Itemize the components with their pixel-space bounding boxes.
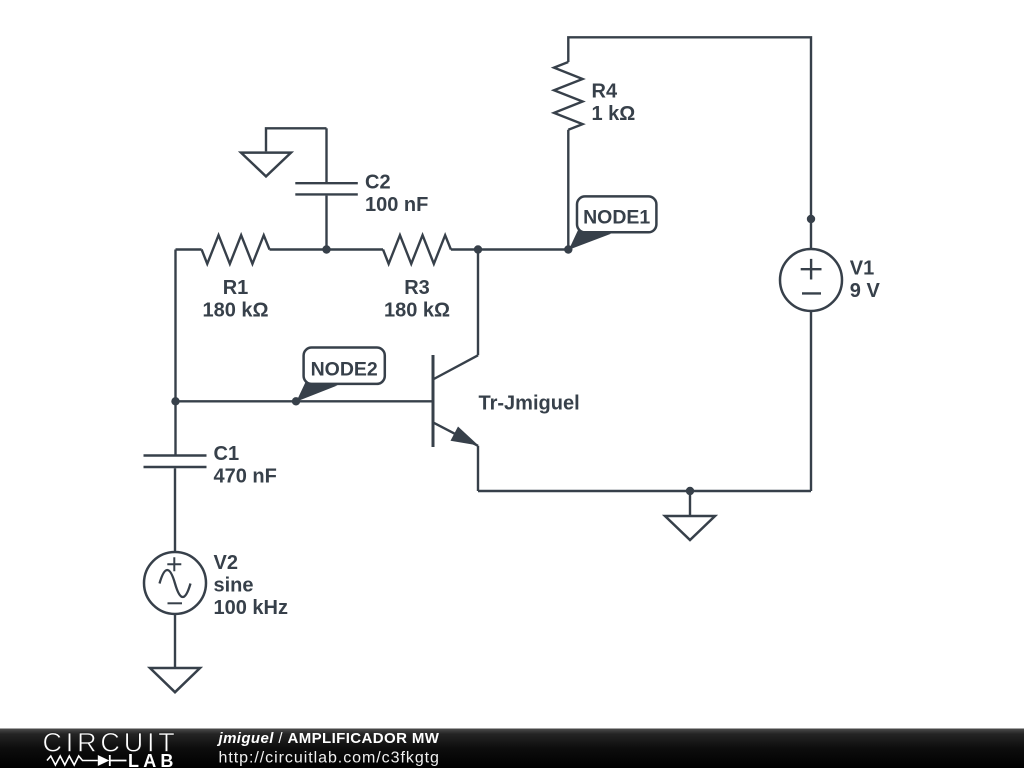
svg-text:V2: V2 — [214, 552, 238, 574]
node NODE1 tail — [569, 229, 611, 250]
ground at V2 — [150, 668, 200, 692]
resistor R1 — [202, 235, 270, 264]
wire NODE2 rail (base wire) — [176, 400, 434, 402]
wire R1 to R3 through C2 junction — [270, 248, 384, 250]
wire bottom rail — [478, 490, 811, 492]
transistor Q1 emitter diagonal — [434, 423, 478, 446]
svg-text:9 V: 9 V — [850, 280, 881, 302]
svg-text:C1: C1 — [214, 443, 240, 465]
junction dot ground rail — [686, 487, 694, 495]
svg-text:sine: sine — [214, 575, 254, 597]
wire V2 to ground — [174, 614, 176, 667]
source V2 minus — [168, 602, 183, 604]
junction dot C2/R1/R3 — [322, 245, 330, 253]
transistor Q1 collector diagonal — [434, 355, 478, 379]
wire top rail from R4 top to V1 top — [568, 37, 811, 249]
capacitor C1 bottom wire — [174, 468, 176, 552]
capacitor C2 bottom wire — [325, 196, 327, 250]
svg-text:jmiguel / AMPLIFICADOR MW: jmiguel / AMPLIFICADOR MW — [217, 730, 440, 747]
svg-text:R1: R1 — [223, 277, 249, 299]
logo diode cathode and wire — [110, 755, 127, 766]
wire collector to y249 rail — [477, 250, 479, 356]
wire R4 bottom to NODE1 junction — [567, 130, 569, 250]
source V2 circle — [144, 552, 206, 614]
source V1 minus — [802, 292, 821, 294]
svg-text:180 kΩ: 180 kΩ — [202, 300, 268, 322]
resistor R4 — [554, 62, 583, 130]
svg-text:180 kΩ: 180 kΩ — [384, 300, 450, 322]
ground stub bottom rail — [689, 491, 691, 515]
svg-text:R4: R4 — [592, 80, 618, 102]
node NODE2 box — [304, 348, 385, 384]
svg-text:NODE2: NODE2 — [311, 358, 378, 380]
wire V1 bottom to rail — [810, 311, 812, 491]
svg-text:V1: V1 — [850, 258, 874, 280]
wire left rail corner: y249 run + left drop to C1 — [176, 250, 202, 456]
wire R3 to NODE1 — [451, 248, 568, 250]
transistor Q1 base bar — [432, 355, 435, 447]
svg-text:LAB: LAB — [128, 751, 178, 768]
source V1 plus — [801, 259, 822, 280]
wire emitter down to bottom rail — [477, 446, 479, 491]
svg-text:C2: C2 — [365, 172, 391, 194]
source V2 sine — [160, 570, 191, 597]
svg-text:470 nF: 470 nF — [214, 466, 277, 488]
junction dot collector rail — [474, 245, 482, 253]
resistor R3 — [383, 235, 451, 264]
junction dot V1 top — [807, 215, 815, 223]
transistor Q1 emitter arrow — [451, 427, 479, 446]
junction dot NODE2 — [292, 397, 300, 405]
junction dot NODE1 — [564, 245, 572, 253]
ground at bottom rail — [665, 516, 715, 540]
node NODE2 tail — [296, 382, 337, 402]
logo diode — [98, 755, 110, 766]
ground at C2 — [241, 153, 291, 177]
source V2 plus — [167, 557, 181, 571]
capacitor C2 plates — [295, 183, 358, 194]
junction dot C1 corner — [171, 397, 179, 405]
svg-text:100 kHz: 100 kHz — [214, 597, 289, 619]
logo resistor zigzag — [47, 756, 98, 765]
capacitor C2 top wire — [325, 128, 327, 182]
svg-text:NODE1: NODE1 — [583, 207, 650, 229]
node NODE1 box — [577, 196, 656, 232]
footer bar — [0, 729, 1024, 768]
svg-text:R3: R3 — [404, 277, 430, 299]
capacitor C1 plates — [144, 456, 207, 468]
svg-text:100 nF: 100 nF — [365, 194, 428, 216]
svg-text:Tr-Jmiguel: Tr-Jmiguel — [479, 392, 580, 414]
source V1 circle — [780, 249, 842, 311]
svg-text:http://circuitlab.com/c3fkgtg: http://circuitlab.com/c3fkgtg — [219, 749, 440, 766]
svg-text:1 kΩ: 1 kΩ — [592, 103, 636, 125]
wire C2 to ground hook — [266, 128, 327, 151]
